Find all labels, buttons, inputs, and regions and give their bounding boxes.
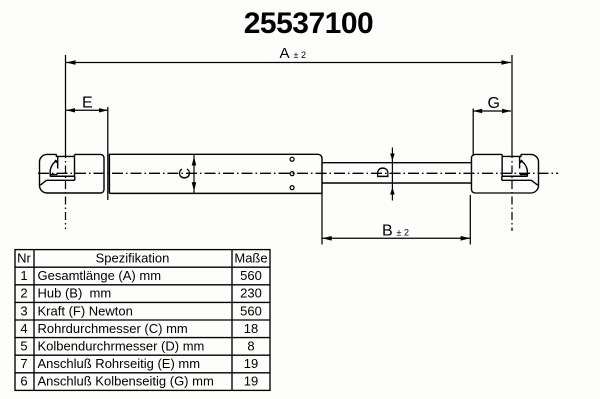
table row 4 Rohrdurchmesser: [20, 321, 258, 336]
svg-text:Anschluß Kolbenseitig (G) mm: Anschluß Kolbenseitig (G) mm: [38, 374, 214, 389]
svg-text:Maße: Maße: [234, 251, 267, 266]
svg-text:Rohrdurchmesser (C) mm: Rohrdurchmesser (C) mm: [38, 321, 188, 336]
table row 5 Kolbendurchrmesser: [20, 339, 254, 354]
spec table grid: [15, 250, 270, 391]
dimension B extension line right (from right fitting): [469, 195, 471, 245]
svg-text:Kraft (F) Newton: Kraft (F) Newton: [38, 303, 133, 318]
svg-text:A: A: [279, 45, 289, 62]
dimension B extension line left (from tube end): [321, 193, 323, 244]
svg-text:19: 19: [244, 356, 258, 371]
right fitting L2 (eyelet bracket, mirrored): [471, 154, 538, 193]
dimension A extension line left (through left eyelet): [65, 55, 67, 150]
svg-text:D: D: [375, 167, 393, 179]
svg-text:6: 6: [20, 374, 27, 389]
svg-text:G: G: [487, 95, 499, 112]
svg-text:± 2: ± 2: [294, 50, 306, 60]
svg-text:19: 19: [244, 374, 258, 389]
svg-text:5: 5: [20, 339, 27, 354]
svg-text:Hub (B) mm: Hub (B) mm: [38, 286, 112, 301]
svg-text:560: 560: [240, 303, 262, 318]
svg-text:Gesamtlänge (A) mm: Gesamtlänge (A) mm: [38, 268, 162, 283]
svg-text:Spezifikation: Spezifikation: [96, 251, 170, 266]
svg-text:560: 560: [240, 268, 262, 283]
svg-text:7: 7: [20, 356, 27, 371]
dimension A line: [66, 62, 511, 64]
table row 1 Gesamtlaenge: [20, 268, 261, 283]
svg-text:Anschluß Rohrseitig (E) mm: Anschluß Rohrseitig (E) mm: [38, 356, 201, 371]
tube end holes (3 small circles): [290, 157, 294, 161]
table row 6 Anschluss Kolbenseitig: [20, 374, 258, 389]
svg-text:8: 8: [247, 339, 254, 354]
centerline (horizontal dash-dot axis): [38, 172, 558, 174]
svg-text:1: 1: [20, 268, 27, 283]
svg-text:Nr: Nr: [17, 251, 31, 266]
table row 7 Anschluss Rohrseitig: [20, 356, 258, 371]
svg-text:Kolbendurchrmesser (D) mm: Kolbendurchrmesser (D) mm: [38, 339, 205, 354]
svg-text:230: 230: [240, 286, 262, 301]
svg-text:± 2: ± 2: [397, 228, 409, 238]
dimension E line: [66, 109, 108, 111]
svg-text:C: C: [177, 168, 194, 180]
svg-text:18: 18: [244, 321, 258, 336]
left fitting L1 (eyelet bracket): [40, 154, 105, 193]
cylinder tube: [109, 154, 322, 193]
dimension D line (rod diameter): [391, 148, 393, 201]
dimension A extension line right (through right eyelet): [511, 55, 513, 150]
dimension E extension line (tube-side, crosses tube): [107, 107, 109, 200]
svg-text:25537100: 25537100: [244, 7, 373, 40]
svg-text:4: 4: [20, 321, 27, 336]
dimension B line: [322, 237, 470, 239]
svg-text:B: B: [382, 223, 393, 240]
piston rod: [322, 162, 472, 164]
table row 2 Hub: [20, 286, 261, 301]
table row 3 Kraft: [20, 303, 261, 318]
dimension G extension line: [472, 109, 474, 157]
table header row: [17, 251, 267, 266]
svg-text:2: 2: [20, 286, 27, 301]
dimension C line (tube diameter): [193, 155, 195, 194]
svg-text:E: E: [82, 95, 93, 112]
dimension G line: [473, 110, 511, 112]
svg-text:3: 3: [20, 303, 27, 318]
